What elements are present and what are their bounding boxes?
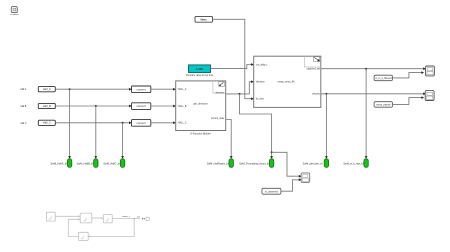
tag block Hall_B [38,103,55,108]
svg-text:m_observed: m_observed [265,190,279,193]
wire branch to scope3 input 1 [272,152,299,176]
ghost block D (flipped delay) [78,232,88,240]
svg-text:Hall_B: Hall_B [43,104,51,108]
wire Compare to cnt_delta_t input [211,65,252,69]
wire captured_val output to scope1 [321,68,423,70]
svg-text:SwM_HallC_bl: SwM_HallC_bl [103,162,120,165]
constant block Compare (teal) [186,65,214,77]
tag block m_in_k_filtered [374,75,392,81]
ghost terminator block [146,217,149,220]
svg-text:SwM_HallB_bl: SwM_HallB_bl [77,162,94,165]
wire hall A branch down to g1 [69,89,71,156]
svg-text:captured_val: captured_val [307,68,321,71]
ghost wire D to B input2 [68,219,78,236]
svg-text:cnt_delta_t: cnt_delta_t [256,63,268,66]
subsystem block get_direction (S-Function Builder) [176,81,226,136]
goto tag SwM_crtHall_bl (green) [303,159,329,168]
scope block Scope3 [301,173,310,183]
wire convert3 to get_direction HALL_C [151,122,174,124]
wire servo_raw to scope2 input2 [392,98,422,105]
ghost block A (commented source) [46,212,55,221]
svg-text:S-Function Builder: S-Function Builder [190,133,211,136]
svg-text:SwM_HallStatus_bl: SwM_HallStatus_bl [207,162,229,165]
svg-text:direction: direction [256,81,265,84]
ghost wire B to C [92,217,102,219]
svg-text:current_state: current_state [211,117,225,120]
tag block servo_raw [374,102,392,108]
svg-text:SwM_direction_bl: SwM_direction_bl [303,162,323,165]
wire current_state output to SwM_Status tag [226,120,232,157]
tag block Hall_C [38,120,55,125]
svg-text:servo_rawval: servo_rawval [376,104,391,107]
ghost wire A to B [55,215,78,217]
wire m_phase to scope3 input2 [281,180,299,191]
goto tag SwM_Status_bl (green) [207,159,234,168]
svg-text:out: out [137,215,140,218]
junction node on hall B wire [95,105,97,107]
wire branch velocity to SwM tag g6 [325,94,327,157]
wire direction output to junction [226,82,252,94]
svg-text:HALL_A: HALL_A [178,88,187,91]
wire m_in_k_filtered to scope1 input2 [392,73,422,78]
goto tag SwM_w_k_bl (green) [343,159,368,168]
svg-text:tic_time: tic_time [256,98,265,101]
wire Hall_B to convert2 [55,105,129,107]
svg-text:direction: direction [216,92,225,95]
wire convert1 to get_direction HALL_A [151,88,174,90]
svg-text:convert: convert [137,87,146,91]
svg-text:HALL_B: HALL_B [178,105,187,108]
svg-text:Hall_C: Hall_C [43,121,51,125]
svg-text:Hall_A: Hall_A [43,87,51,91]
junction node on hall A wire [69,88,71,90]
svg-text:SwM_w_k_raw_bl: SwM_w_k_raw_bl [343,162,364,165]
svg-text:convert: convert [137,104,146,108]
tag block Hall_A [38,87,55,92]
ghost block B [80,213,92,223]
scope block Scope2 [425,91,434,101]
subsystem block meas_omm_filt [254,56,321,107]
wire convert2 to get_direction HALL_B [151,105,174,107]
svg-text:meas_omm_filt: meas_omm_filt [278,80,295,83]
junction node direction [239,93,241,95]
svg-text:get_direction: get_direction [193,102,208,105]
svg-text:convert: convert [137,121,146,125]
goto tag SwM_HallB_bl (green) [77,159,98,168]
goto tag SwM_Formatting_bl (green) [239,159,274,168]
svg-text:hall B: hall B [20,105,26,108]
scope block Scope1 [426,66,435,76]
svg-text:SwM_Formatting_struct_bl: SwM_Formatting_struct_bl [239,162,269,165]
junction node velocity [325,93,327,95]
wire branch captured_val to SwM tag g7 [365,69,367,157]
wire velocity output to scope2 [321,93,423,95]
convert block convert3 [132,120,151,127]
convert block convert2 [132,103,151,110]
ghost block C [103,215,112,223]
svg-text:1.000: 1.000 [196,67,203,71]
wire Nms to tic_time input [213,19,252,98]
junction node on hall C wire [122,122,124,124]
junction node on formatting drop [271,151,273,153]
ghost feedback wire to block D [90,219,134,237]
svg-text:m_in_k_filtered: m_in_k_filtered [375,77,392,80]
convert block convert1 [132,86,151,93]
constant block Nms [195,16,213,22]
wire hall B branch down to g2 [95,106,97,157]
svg-text:HALL_C: HALL_C [178,122,187,125]
wire Hall_A to convert1 [55,88,129,90]
wire direction branch to SwM_Formatting tag [240,94,272,157]
clock block Clock1 [10,7,19,16]
svg-text:Loadtick: Loadtick [10,13,19,16]
wire hall C branch down to g3 [122,123,124,157]
svg-text:SwM_HallA_bl: SwM_HallA_bl [51,162,68,165]
svg-text:Nms: Nms [200,17,207,21]
wire Hall_C to convert3 [55,122,129,124]
junction node captured_val [365,68,367,70]
goto tag SwM_HallC_bl (green) [103,159,124,168]
svg-text:hall C: hall C [20,122,26,125]
tag block m_phase [262,188,281,194]
ghost wire C output with junction [112,218,140,220]
svg-text:Compare value for 1st time: Compare value for 1st time [186,74,214,77]
svg-text:velocity: velocity [312,93,321,96]
svg-text:hall A: hall A [20,88,26,91]
goto tag SwM_HallA_bl (green) [51,159,72,168]
svg-text:meas_t: meas_t [122,215,130,218]
